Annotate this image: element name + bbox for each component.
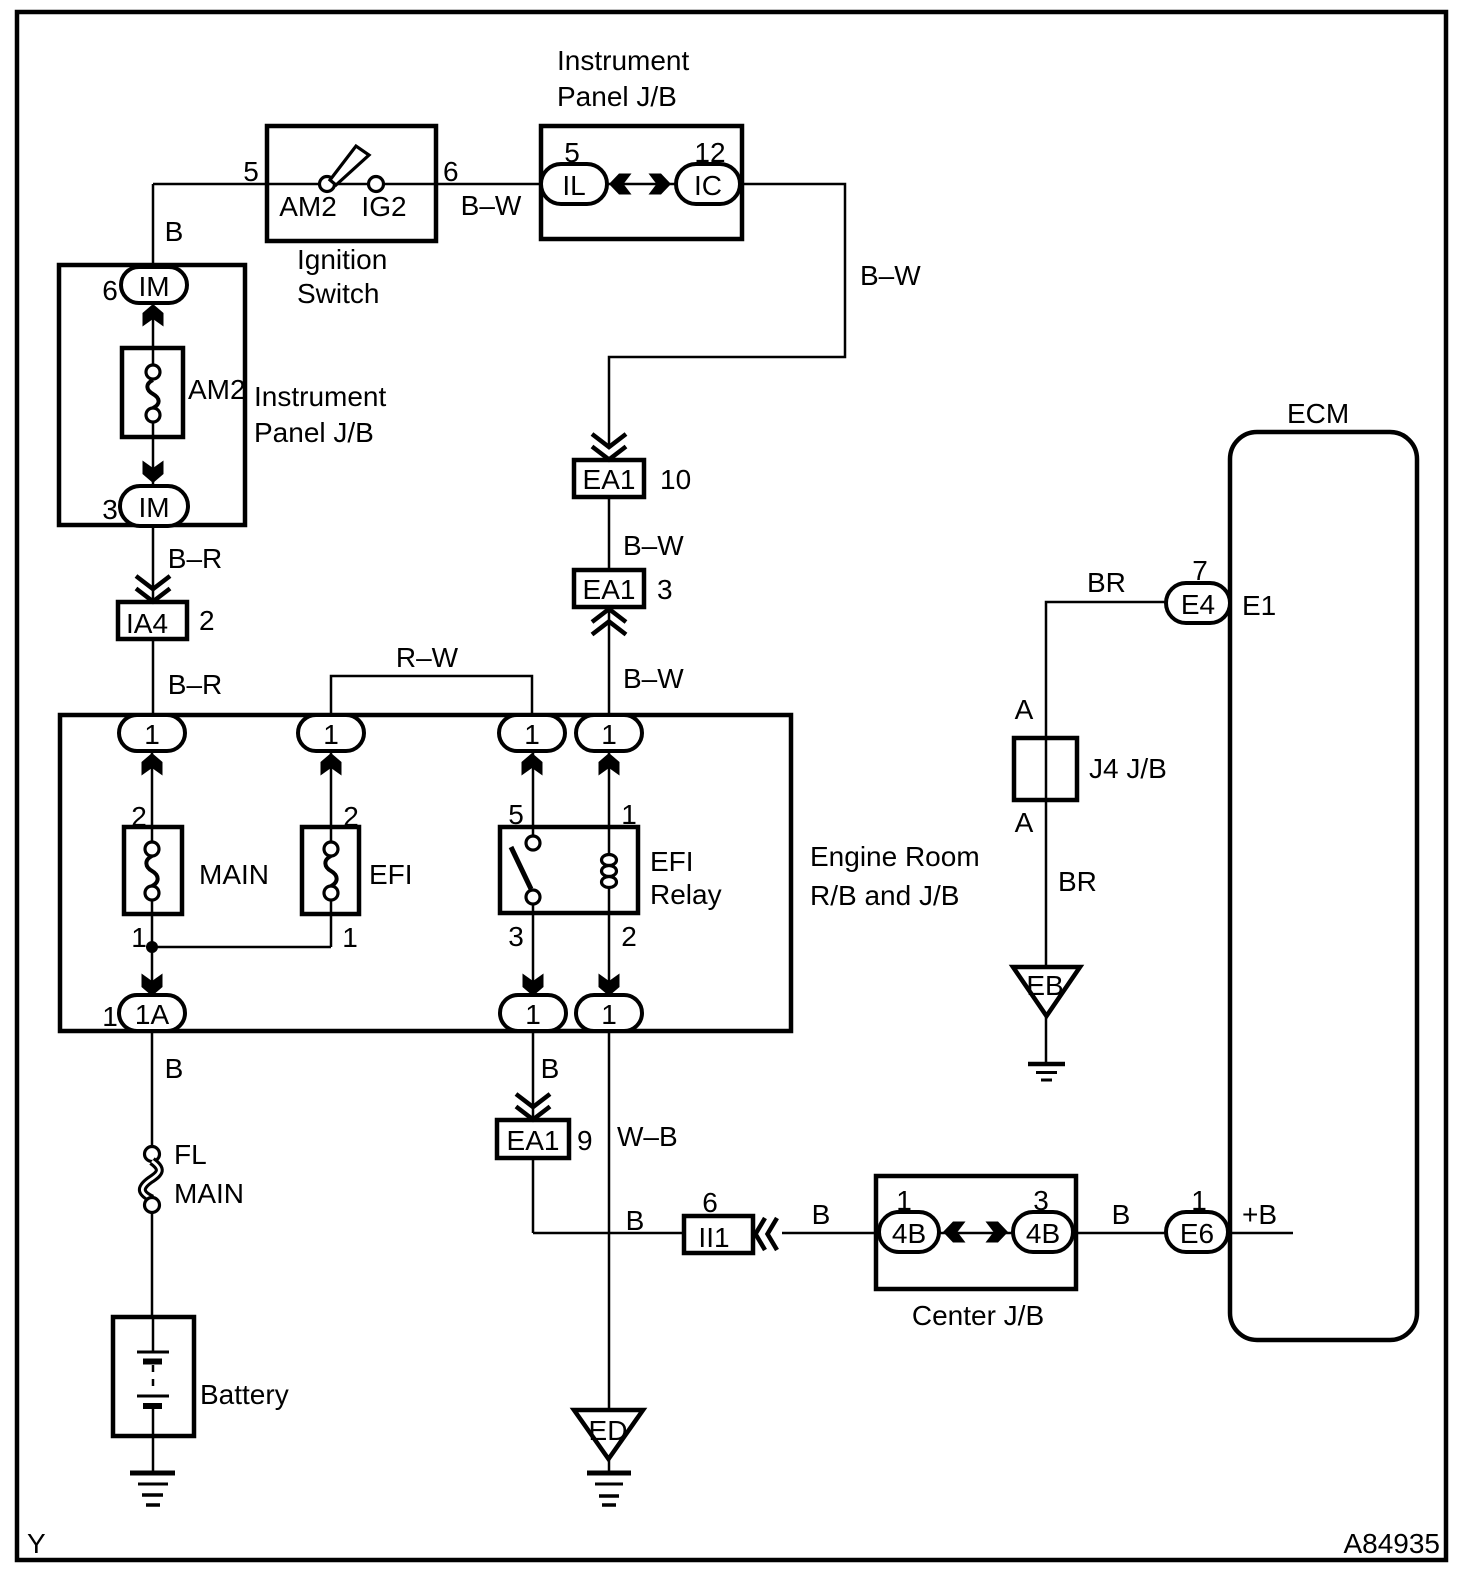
ground battery — [130, 1473, 175, 1505]
svg-text:IC: IC — [694, 170, 722, 201]
arrow left IL — [609, 174, 632, 195]
svg-text:EFI: EFI — [369, 859, 413, 890]
connector EA1-3 box — [574, 570, 644, 607]
svg-text:EA1: EA1 — [583, 464, 636, 495]
svg-text:E6: E6 — [1180, 1218, 1214, 1249]
wire oval4 to relay coil — [608, 749, 611, 857]
svg-text:1: 1 — [621, 799, 637, 830]
svg-text:Switch: Switch — [297, 278, 379, 309]
svg-text:J4 J/B: J4 J/B — [1089, 753, 1167, 784]
svg-text:E4: E4 — [1181, 589, 1215, 620]
svg-text:3: 3 — [508, 921, 524, 952]
relay contact top — [526, 836, 540, 850]
svg-text:6: 6 — [102, 275, 118, 306]
wire junction to EFI — [152, 946, 331, 949]
svg-text:4B: 4B — [892, 1218, 926, 1249]
svg-text:EB: EB — [1026, 970, 1063, 1001]
svg-text:MAIN: MAIN — [199, 859, 269, 890]
svg-text:1: 1 — [601, 719, 617, 750]
wire FL MAIN to battery — [151, 1213, 154, 1317]
svg-text:1: 1 — [601, 999, 617, 1030]
connector EA1-9 box — [497, 1120, 569, 1158]
svg-text:2: 2 — [199, 605, 215, 636]
svg-text:+B: +B — [1242, 1199, 1277, 1230]
ignition switch box — [267, 126, 436, 241]
wire oval1 to MAIN fuse — [151, 749, 154, 827]
relay coil — [602, 855, 617, 866]
svg-text:Panel J/B: Panel J/B — [557, 81, 677, 112]
svg-text:6: 6 — [702, 1187, 718, 1218]
chevrons down above EA1-9 — [516, 1094, 550, 1120]
svg-text:BR: BR — [1058, 866, 1097, 897]
svg-text:3: 3 — [657, 574, 673, 605]
engine room R/B and J/B box — [60, 715, 791, 1031]
svg-text:EA1: EA1 — [583, 574, 636, 605]
svg-text:12: 12 — [694, 137, 725, 168]
svg-text:5: 5 — [243, 156, 259, 187]
svg-text:II1: II1 — [698, 1222, 729, 1253]
connector IM bottom oval — [120, 486, 188, 526]
svg-text:3: 3 — [1033, 1185, 1049, 1216]
svg-text:Battery: Battery — [200, 1379, 289, 1410]
svg-text:B: B — [541, 1053, 560, 1084]
connector oval 4 engine room — [576, 715, 642, 751]
arrow down to IM — [143, 461, 164, 484]
connector IA4 box — [118, 602, 187, 639]
svg-text:B–W: B–W — [860, 260, 921, 291]
svg-text:Y: Y — [27, 1528, 46, 1559]
svg-text:1: 1 — [144, 719, 160, 750]
wire EB to ground — [1045, 1016, 1048, 1064]
fuse AM2 symbol — [152, 350, 155, 366]
relay EFI box — [500, 827, 638, 913]
connector oval 2 engine room — [298, 715, 364, 751]
wire relay coil to oval — [608, 885, 611, 997]
svg-text:IA4: IA4 — [126, 608, 168, 639]
wire relay contact to oval — [532, 904, 535, 997]
wire EA1-10 to EA1-3 — [608, 497, 611, 570]
svg-text:Engine Room: Engine Room — [810, 841, 980, 872]
fuse MAIN box — [124, 827, 182, 914]
arrow right 4B — [986, 1222, 1009, 1243]
arrow right IC — [649, 174, 672, 195]
chevrons down above EA1-10 — [592, 434, 626, 460]
connector 1A oval — [119, 995, 185, 1031]
switch contacts AM2/IG2 — [320, 177, 335, 192]
svg-text:B–W: B–W — [623, 530, 684, 561]
connector IL oval — [541, 164, 607, 204]
ground symbol EB — [1013, 967, 1080, 1016]
svg-text:W–B: W–B — [617, 1121, 678, 1152]
wire 4B to E6 — [1070, 1232, 1168, 1235]
svg-text:IG2: IG2 — [361, 191, 406, 222]
svg-text:ECM: ECM — [1287, 398, 1349, 429]
arrow down oval — [523, 974, 544, 997]
wire oval to EA1-9 — [532, 1031, 535, 1120]
svg-text:FL: FL — [174, 1139, 207, 1170]
wire battery to ground — [152, 1436, 155, 1473]
chevrons up below EA1-3 — [592, 609, 626, 635]
connector oval 1 bottom — [500, 995, 566, 1031]
battery box — [113, 1317, 194, 1436]
svg-text:1: 1 — [131, 922, 147, 953]
ECM box — [1230, 432, 1417, 1340]
wire W-B to ED — [608, 1031, 611, 1410]
connector oval 1 bottom right — [576, 995, 642, 1031]
svg-text:B: B — [165, 1053, 184, 1084]
svg-text:2: 2 — [131, 801, 147, 832]
arrow up oval2 — [321, 753, 342, 776]
center J/B box — [876, 1176, 1076, 1289]
instrument panel J/B left box — [59, 265, 245, 525]
svg-text:3: 3 — [102, 494, 118, 525]
connector IM top oval — [121, 267, 187, 303]
wire oval3 to relay contact — [532, 749, 535, 836]
fuse EFI symbol — [330, 827, 333, 842]
connector oval 1 engine room — [119, 715, 185, 751]
svg-text:MAIN: MAIN — [174, 1178, 244, 1209]
wire EA1-3 to engine room — [608, 607, 611, 717]
instrument panel J/B top box — [541, 126, 742, 239]
svg-text:Relay: Relay — [650, 879, 722, 910]
arrow up oval3 — [522, 753, 543, 776]
svg-text:1: 1 — [102, 1001, 118, 1032]
wire MAIN fuse to 1A — [151, 914, 154, 997]
svg-text:Instrument: Instrument — [557, 45, 689, 76]
svg-text:B–R: B–R — [168, 543, 222, 574]
svg-text:IM: IM — [138, 271, 169, 302]
svg-text:5: 5 — [564, 137, 580, 168]
fusible link FL MAIN — [145, 1147, 160, 1162]
connector EA1-10 box — [574, 460, 644, 497]
svg-text:Panel J/B: Panel J/B — [254, 417, 374, 448]
svg-text:B: B — [165, 216, 184, 247]
wire to II1 — [533, 1232, 683, 1235]
svg-text:AM2: AM2 — [279, 191, 337, 222]
wire E6 into ECM — [1226, 1232, 1293, 1235]
svg-text:1: 1 — [1191, 1185, 1207, 1216]
svg-text:B–W: B–W — [461, 190, 522, 221]
switch lever — [330, 146, 369, 185]
svg-text:A84935: A84935 — [1343, 1528, 1440, 1559]
wire ED to ground — [608, 1459, 611, 1473]
wire IM to IA4 — [152, 525, 155, 602]
arrow down oval — [599, 974, 620, 997]
wire B down from ignition — [152, 184, 155, 268]
connector II1 box — [684, 1216, 753, 1253]
svg-text:Ignition: Ignition — [297, 244, 387, 275]
wire II1 to 4B — [782, 1232, 881, 1235]
svg-text:EA1: EA1 — [507, 1125, 560, 1156]
svg-text:IL: IL — [562, 170, 585, 201]
svg-text:B: B — [626, 1205, 645, 1236]
svg-text:ED: ED — [589, 1415, 628, 1446]
wire EFI fuse bottom — [330, 914, 333, 947]
svg-text:Instrument: Instrument — [254, 381, 386, 412]
fuse MAIN symbol — [151, 827, 154, 842]
arrow up oval4 — [599, 753, 620, 776]
wire oval2 to EFI fuse — [330, 749, 333, 827]
arrow down 1A — [142, 974, 163, 997]
svg-text:1: 1 — [525, 999, 541, 1030]
svg-text:AM2: AM2 — [188, 374, 246, 405]
svg-text:1: 1 — [323, 719, 339, 750]
svg-text:4B: 4B — [1026, 1218, 1060, 1249]
svg-text:B–W: B–W — [623, 663, 684, 694]
svg-text:Center J/B: Center J/B — [912, 1300, 1044, 1331]
fuse AM2 box — [122, 348, 183, 437]
svg-text:B: B — [812, 1199, 831, 1230]
wire 1A to FL MAIN — [151, 1031, 154, 1147]
relay blade — [511, 847, 531, 889]
wire 4B to 4B — [936, 1232, 1016, 1235]
svg-text:7: 7 — [1192, 555, 1208, 586]
svg-text:R–W: R–W — [396, 642, 459, 673]
wire IA4 to engine room — [152, 639, 155, 717]
svg-text:10: 10 — [660, 464, 691, 495]
wire AM2 fuse to IM — [152, 437, 155, 488]
J4 J/B box — [1014, 738, 1077, 800]
relay contact bottom — [526, 890, 540, 904]
svg-text:5: 5 — [508, 799, 524, 830]
svg-text:B–R: B–R — [168, 669, 222, 700]
chevrons left of II1 — [756, 1218, 778, 1250]
svg-text:R/B and J/B: R/B and J/B — [810, 880, 959, 911]
wire IL-IC — [605, 183, 678, 186]
fuse EFI box — [302, 827, 359, 914]
svg-text:EFI: EFI — [650, 846, 694, 877]
wire ignition row — [153, 183, 543, 186]
connector oval 3 engine room — [499, 715, 565, 751]
wire EA1-9 down — [532, 1158, 535, 1233]
junction node — [146, 941, 158, 953]
svg-text:E1: E1 — [1242, 590, 1276, 621]
arrow up to IM — [143, 304, 164, 327]
svg-text:6: 6 — [443, 156, 459, 187]
svg-text:2: 2 — [343, 801, 359, 832]
wire R-W jumper — [331, 676, 532, 717]
arrow up oval1 — [142, 753, 163, 776]
connector E6 oval — [1166, 1212, 1228, 1252]
wire E4 to J4 — [1046, 602, 1168, 967]
svg-text:1: 1 — [524, 719, 540, 750]
connector 4B oval left — [879, 1212, 939, 1252]
battery cells — [152, 1317, 155, 1351]
svg-text:2: 2 — [621, 921, 637, 952]
svg-text:9: 9 — [577, 1125, 593, 1156]
svg-text:1: 1 — [896, 1185, 912, 1216]
wire IC to corner — [609, 184, 845, 446]
svg-text:A: A — [1015, 694, 1034, 725]
wire IM to AM2 fuse — [152, 303, 155, 350]
connector IC oval — [676, 164, 740, 204]
svg-text:1A: 1A — [135, 999, 170, 1030]
connector 4B oval right — [1013, 1212, 1073, 1252]
svg-text:BR: BR — [1087, 567, 1126, 598]
ground symbol ED — [574, 1410, 643, 1459]
svg-text:IM: IM — [138, 492, 169, 523]
svg-text:A: A — [1015, 807, 1034, 838]
svg-text:B: B — [1112, 1199, 1131, 1230]
arrow left 4B — [943, 1222, 966, 1243]
svg-text:1: 1 — [342, 922, 358, 953]
connector E4 oval — [1166, 583, 1230, 623]
chevrons down above IA4 — [136, 576, 170, 602]
